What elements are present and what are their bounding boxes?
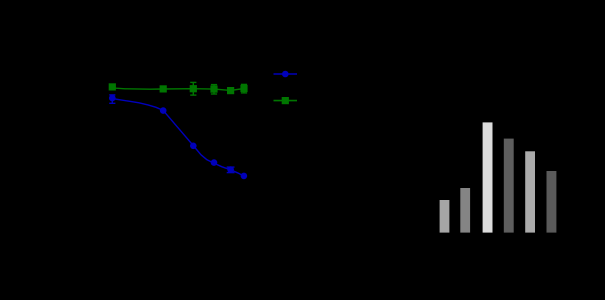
blue errorbar point5 bbox=[227, 167, 235, 173]
green marker 5 bbox=[227, 87, 234, 94]
green marker 4 bbox=[210, 86, 217, 93]
legend green entry line bbox=[274, 100, 298, 102]
blue marker 1 bbox=[109, 95, 116, 102]
blue marker 3 bbox=[190, 143, 197, 150]
bar 5 bbox=[525, 151, 535, 232]
green marker 2 bbox=[160, 85, 167, 92]
green errorbar point4 bbox=[211, 84, 217, 94]
blue marker 6 bbox=[241, 173, 248, 180]
legend blue entry line bbox=[274, 73, 298, 75]
blue marker 5 bbox=[227, 166, 234, 173]
bar 1 bbox=[440, 200, 450, 233]
bar 4 bbox=[504, 139, 514, 233]
legend blue marker bbox=[282, 71, 289, 78]
blue errorbar point4 bbox=[213, 160, 215, 165]
bar 2 bbox=[460, 188, 470, 233]
blue marker 4 bbox=[211, 159, 218, 166]
legend green marker bbox=[282, 97, 289, 104]
blue fitted curve bbox=[112, 99, 244, 177]
blue errorbar point2 bbox=[162, 108, 164, 113]
green marker 3 bbox=[190, 85, 197, 92]
green errorbar point6 bbox=[241, 84, 247, 93]
bar 3 bbox=[483, 122, 493, 232]
bar 6 bbox=[547, 171, 557, 233]
green marker 1 bbox=[109, 83, 116, 90]
green fitted line bbox=[112, 87, 244, 91]
blue marker 2 bbox=[160, 107, 167, 114]
green errorbar point3 bbox=[190, 82, 196, 95]
blue errorbar point1 bbox=[109, 95, 115, 103]
green marker 6 bbox=[240, 85, 247, 92]
